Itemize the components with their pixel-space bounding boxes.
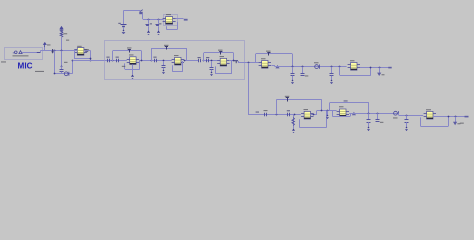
- wire loop F top: [330, 102, 369, 104]
- wire rail after U9: [349, 113, 399, 115]
- wire U8 fb left: [299, 119, 301, 127]
- power arrow at mic: [43, 42, 47, 45]
- junction C12 branch: [292, 66, 294, 68]
- junction at C2: [158, 19, 160, 21]
- wire U10 fb bottom: [421, 126, 449, 128]
- label near output: [460, 123, 464, 124]
- wire C8b dn: [163, 68, 165, 71]
- wire to C2: [158, 19, 160, 24]
- label U2: [77, 46, 82, 47]
- junction U8 out: [313, 114, 315, 116]
- wire U2 fb left: [74, 51, 76, 59]
- capacitor C17: [288, 113, 290, 117]
- op-amp U4: [172, 57, 184, 65]
- label at power flag: [47, 44, 51, 45]
- wire U3 fb down: [139, 61, 141, 69]
- wire mic node to first opamp: [41, 50, 74, 52]
- wire power flag to mic node: [44, 46, 46, 50]
- wire R9 branch down: [293, 115, 295, 129]
- wire to C21: [406, 115, 408, 120]
- ground below C15: [330, 80, 333, 84]
- wire rail to stage D: [238, 62, 259, 64]
- junction R4 branch: [163, 60, 165, 62]
- wire switch down to rail: [142, 14, 144, 19]
- label U3: [129, 54, 134, 55]
- wire C4 to bottom rail: [61, 72, 63, 74]
- wire rail across upper right: [275, 66, 347, 68]
- wire C2 to ground: [158, 26, 160, 31]
- junction C13 branch: [302, 66, 304, 68]
- label B1 plus: [118, 23, 121, 24]
- wire mic to box edge: [22, 52, 40, 54]
- power arrow above R1: [60, 26, 64, 29]
- regulator U1: [163, 17, 176, 25]
- wire U10 output: [433, 116, 465, 118]
- wire U4 fb bottom: [172, 71, 183, 73]
- capacitor C12: [291, 74, 295, 76]
- rail through stage B input: [151, 60, 172, 62]
- wire top rail to regulator: [143, 19, 164, 21]
- wire R1 down to mic node: [61, 37, 63, 50]
- label C17: [287, 110, 290, 111]
- capacitor C8b: [162, 66, 166, 68]
- junction loop A input: [112, 60, 114, 62]
- wire loop B top: [151, 48, 186, 50]
- junction fb meets drop: [90, 58, 92, 60]
- label U10: [426, 109, 431, 110]
- wire U9 fb bottom: [332, 116, 350, 118]
- junction loop B input: [151, 60, 153, 62]
- wire to C12: [292, 67, 294, 74]
- ground below C8b: [162, 70, 165, 74]
- label left of C16: [256, 112, 259, 113]
- wire loop B right: [186, 48, 188, 61]
- wire regulator bottom loop: [167, 29, 178, 31]
- wire U5 output: [230, 60, 238, 62]
- capacitor C21: [405, 120, 409, 123]
- wire jog down after U6: [274, 65, 276, 68]
- wire lower rail from drop: [248, 114, 301, 116]
- junction fb return: [370, 67, 372, 69]
- capacitor C8: [155, 59, 157, 63]
- wire stage B to C: [184, 60, 198, 62]
- label R3: [164, 45, 169, 46]
- wire C18 dn: [368, 122, 370, 127]
- op-amp U10: [424, 111, 436, 119]
- wire C21 dn: [406, 122, 408, 127]
- wire U8 fb right: [326, 111, 328, 128]
- wire rail into big box: [73, 60, 105, 62]
- wire loop B left: [151, 48, 153, 61]
- capacitor C11: [210, 68, 214, 70]
- wire U4 fb up: [172, 65, 174, 71]
- op-amp U3: [127, 57, 139, 65]
- filter stages outline box: [105, 41, 245, 80]
- capacitor C15: [330, 74, 334, 76]
- label U8: [304, 109, 309, 110]
- ground below battery: [122, 30, 125, 34]
- wire U2 fb bottom: [74, 58, 90, 60]
- wire to R4: [163, 61, 165, 66]
- wire loop C right: [233, 53, 235, 61]
- wire to C1: [148, 19, 150, 24]
- capacitor C9: [199, 59, 201, 63]
- wire U7 fb bottom: [340, 75, 371, 77]
- caption under mic symbol: [13, 55, 29, 56]
- label C13: [305, 75, 309, 76]
- wire loop F left: [329, 103, 331, 111]
- wire C15 dn: [331, 76, 333, 81]
- label C9: [198, 57, 201, 58]
- wire to C11: [211, 61, 213, 67]
- capacitor C1: [146, 25, 150, 26]
- label C16: [264, 110, 268, 111]
- label U4: [174, 55, 179, 56]
- label C14: [314, 62, 319, 63]
- ground below C21: [405, 127, 407, 131]
- junction at D1: [54, 50, 56, 52]
- junction R1 mic node: [61, 50, 63, 52]
- label U1: [166, 14, 171, 15]
- wire jog up after U8: [316, 111, 318, 115]
- series electrolytic C14: [315, 65, 319, 69]
- label C20: [393, 117, 398, 118]
- wire loop E top: [277, 99, 322, 101]
- junction U5 output: [233, 60, 235, 62]
- label C19: [380, 122, 384, 123]
- wire U5 fb down: [231, 61, 233, 74]
- wire regulator gnd right: [177, 22, 179, 30]
- ground below C1: [147, 31, 150, 35]
- junction gnd branch: [327, 110, 329, 112]
- op-amp U5: [217, 58, 229, 66]
- series element D1: [52, 49, 54, 52]
- svg-text:MIC: MIC: [18, 60, 33, 70]
- junction before U8: [294, 114, 296, 116]
- wire U5 fb up: [215, 66, 217, 74]
- wire U8 fb bottom: [300, 127, 327, 129]
- plus of C2: [159, 23, 161, 24]
- label U6: [261, 58, 266, 59]
- wire loop E right: [321, 99, 323, 110]
- junction bottom rail left: [54, 73, 56, 75]
- junction C19 branch: [377, 113, 379, 115]
- junction U10 fb return: [448, 116, 450, 118]
- junction on rail: [90, 60, 92, 62]
- wire jog down before U10: [398, 113, 400, 115]
- wire to gnd bars: [327, 111, 329, 116]
- wire U2 output down: [90, 51, 92, 61]
- rail through stage C input: [204, 60, 218, 62]
- wire loop A left: [112, 51, 114, 61]
- label C10: [206, 57, 209, 58]
- battery B1: [121, 25, 127, 27]
- junction C21 branch: [406, 115, 408, 117]
- ground arrow at output: [453, 122, 457, 125]
- label2 at U2 output: [85, 51, 88, 52]
- wire C12 dn: [292, 76, 294, 81]
- marker arrow at U9 output: [352, 112, 356, 115]
- wire loop D top: [256, 53, 292, 55]
- junction ground arrow branch: [379, 67, 381, 69]
- op-amp U8: [301, 111, 313, 119]
- label R7: [266, 51, 271, 52]
- wire to end ground: [455, 117, 457, 123]
- wire battery positive lead: [123, 11, 125, 25]
- regulator outline box: [164, 15, 178, 26]
- label U9: [339, 106, 344, 107]
- ground below R9: [292, 129, 295, 133]
- marker arrow at U6 output: [275, 65, 279, 69]
- label C7: [116, 57, 119, 58]
- wire to C13: [302, 67, 304, 74]
- wire U5 fb bottom: [216, 73, 232, 75]
- op-amp U2: [74, 48, 87, 56]
- resistor R5: [219, 52, 222, 55]
- junction U7 fb: [339, 66, 341, 68]
- wire bias rail riser: [72, 61, 74, 74]
- label R2: [127, 47, 132, 48]
- junction loop C input: [203, 60, 205, 62]
- capacitor C18: [367, 120, 371, 123]
- wire to C4: [61, 66, 63, 69]
- junction at C1: [148, 19, 150, 21]
- capacitor C7: [117, 59, 119, 63]
- wire step up at box edge: [40, 50, 42, 52]
- wire to ground arrow: [379, 68, 381, 73]
- junction gnd arrow branch: [455, 116, 457, 118]
- ground below C18: [367, 127, 369, 131]
- ground at U9 input: [326, 115, 328, 119]
- wire loop E left: [276, 99, 278, 114]
- ring symbol on R1 column: [60, 29, 63, 32]
- wire regulator gnd left: [166, 26, 168, 29]
- wire to C19: [377, 113, 379, 119]
- wire U7 output: [360, 67, 389, 69]
- wire loop D left: [255, 54, 257, 63]
- capacitor C2: [156, 25, 160, 26]
- wire U3 fb bottom: [125, 69, 140, 71]
- wire battery top to switch: [124, 10, 141, 12]
- capacitor C10: [207, 59, 209, 63]
- wire branch down to bias rail: [54, 51, 56, 74]
- rail into stage A: [105, 60, 127, 62]
- junction C15 branch: [331, 66, 333, 68]
- wire C1 to ground: [148, 26, 150, 31]
- wire U2 output: [84, 50, 91, 52]
- wire U10 fb right: [448, 117, 450, 127]
- ground below C12: [291, 80, 294, 84]
- wire U8 output: [311, 114, 318, 116]
- capacitor C13: [301, 74, 305, 76]
- wire jog down at box exit: [238, 61, 240, 63]
- wire U7 fb right: [370, 68, 372, 76]
- ground below C2: [157, 31, 160, 35]
- resistor R3: [165, 47, 168, 50]
- label U5: [220, 56, 225, 57]
- label near bias node: [64, 62, 68, 63]
- junction loop F return: [368, 113, 370, 115]
- electrolytic capacitor C5: [64, 72, 68, 76]
- wire U3 to ground: [132, 64, 134, 74]
- wire rail to U10: [399, 115, 423, 117]
- junction bias on main rail: [72, 60, 74, 62]
- resistor R9: [292, 118, 295, 126]
- caption under MIC box: [35, 71, 44, 72]
- wire dark segment at box edge: [37, 52, 41, 54]
- wire U3 fb up: [124, 63, 126, 69]
- wire loop C top: [204, 52, 234, 54]
- label R1: [63, 33, 67, 34]
- net label after box: [234, 60, 238, 61]
- label MK1: [1, 61, 6, 62]
- resistor R1: [60, 32, 63, 38]
- capacitor C16: [265, 113, 267, 117]
- label U3 fb: [122, 66, 126, 67]
- resistor R7: [267, 53, 270, 56]
- op-amp U9: [337, 109, 349, 116]
- junction U4 output: [184, 60, 186, 62]
- wire stage A to B: [139, 60, 151, 62]
- MIC enclosure box: [5, 48, 43, 60]
- wire loop D right: [292, 54, 294, 67]
- wire to C15: [331, 67, 333, 74]
- wire long drop to lower chain: [248, 63, 250, 115]
- ground below U3: [131, 75, 134, 79]
- ground below C11: [210, 72, 212, 76]
- capacitor C6: [108, 59, 110, 63]
- wire U10 fb left: [420, 117, 422, 126]
- wire rail to U9: [317, 110, 337, 112]
- wire regulator output: [176, 18, 184, 20]
- power flag +9V: [184, 19, 188, 21]
- bottom bias rail: [54, 73, 72, 75]
- microphone MK1 symbol: [15, 51, 18, 54]
- op-amp U7: [348, 63, 360, 71]
- wire loop A top: [113, 50, 142, 52]
- wire U7 fb left: [339, 67, 341, 76]
- junction split to lower chain: [248, 62, 250, 64]
- wire loop C left: [203, 53, 205, 61]
- label R5: [218, 50, 223, 51]
- capacitor C19: [376, 120, 380, 122]
- op-amp U6: [259, 61, 271, 69]
- wire battery negative lead: [123, 27, 125, 30]
- label R10: [344, 100, 348, 101]
- wire loop A right: [141, 51, 143, 61]
- wire C11 dn: [211, 70, 213, 72]
- label C6: [106, 57, 109, 58]
- resistor R2: [128, 50, 131, 53]
- series electrolytic C20: [394, 111, 398, 115]
- wire R1 node down: [61, 51, 63, 67]
- wire to C18: [368, 113, 370, 120]
- label R8: [285, 96, 290, 97]
- junction loop E return: [321, 110, 323, 112]
- wire into U2: [74, 50, 78, 52]
- net tick at box exit: [235, 61, 237, 63]
- floating value label: [66, 40, 69, 41]
- junction loop E input: [276, 114, 278, 116]
- wire U6 output: [271, 65, 275, 67]
- label at U2 output pins: [85, 49, 89, 50]
- switch SW1: [139, 12, 142, 14]
- capacitor C4: [60, 70, 64, 72]
- wire U9 fb left: [332, 111, 334, 117]
- junction U3 output: [141, 60, 143, 62]
- wire loop F right: [368, 103, 370, 114]
- label U7: [350, 60, 355, 61]
- output terminal upper chain: [388, 67, 391, 69]
- wire U4 fb down: [182, 61, 184, 72]
- wire U9 fb right: [350, 113, 352, 116]
- output terminal lower chain: [465, 116, 469, 118]
- resistor R8: [286, 98, 289, 102]
- ground arrow at U7 output: [377, 73, 381, 76]
- plus of C1: [150, 23, 152, 24]
- label C8: [153, 57, 156, 58]
- junction bias mid: [61, 66, 63, 68]
- junction C11 branch: [211, 60, 213, 62]
